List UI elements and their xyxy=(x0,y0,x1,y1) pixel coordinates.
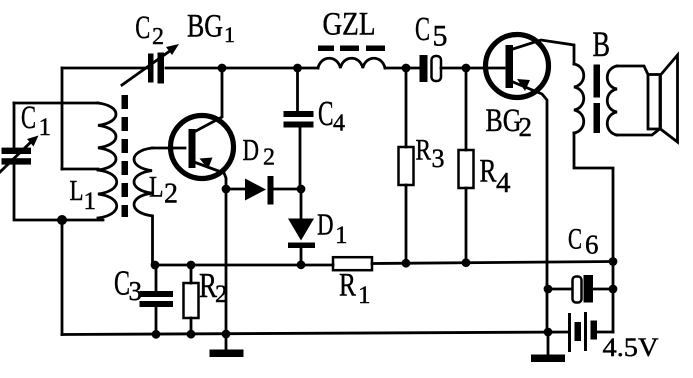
junction BG2 emitter / ground bus xyxy=(544,328,553,337)
wire top rail C5 to BG2 base xyxy=(441,67,504,70)
transformer B secondary xyxy=(607,66,617,135)
svg-text:BG: BG xyxy=(187,9,223,45)
wire secondary to speaker bottom xyxy=(617,130,659,136)
B primary bottom return xyxy=(574,133,613,332)
svg-text:C: C xyxy=(318,94,334,133)
svg-text:3: 3 xyxy=(432,144,445,173)
svg-text:1: 1 xyxy=(335,222,348,249)
svg-text:L: L xyxy=(149,171,164,204)
svg-text:6: 6 xyxy=(585,230,599,260)
ground right xyxy=(547,332,550,355)
svg-text:B: B xyxy=(593,24,611,64)
junction C6 right / battery line xyxy=(609,285,618,294)
svg-text:5: 5 xyxy=(433,20,448,53)
wire C1 top to L1 top xyxy=(14,102,98,105)
ground left xyxy=(225,334,228,350)
arrow C1 xyxy=(0,140,33,172)
svg-text:C: C xyxy=(568,223,582,256)
svg-text:BG: BG xyxy=(486,103,522,139)
svg-text:2: 2 xyxy=(263,145,275,171)
svg-text:D: D xyxy=(317,207,334,242)
inductor L1 xyxy=(98,103,117,218)
junction R4 top / top rail xyxy=(462,64,471,73)
junction tank bottom node xyxy=(57,215,67,225)
resistor R2 xyxy=(190,265,193,283)
svg-text:2: 2 xyxy=(215,281,228,308)
svg-text:R: R xyxy=(480,154,497,190)
svg-text:C: C xyxy=(135,10,150,46)
wire top rail after GZL xyxy=(385,67,420,70)
wire supply rail right segment xyxy=(372,262,613,264)
wire tank bottom down to ground bus xyxy=(61,220,64,335)
svg-text:GZL: GZL xyxy=(323,7,376,43)
capacitor C1 xyxy=(2,148,32,165)
transistor BG2 xyxy=(486,35,549,98)
svg-text:4: 4 xyxy=(496,167,511,199)
wire ground bus bottom xyxy=(62,332,569,335)
speaker xyxy=(648,75,660,130)
resistor R1 xyxy=(333,257,372,270)
wire secondary to speaker top xyxy=(617,66,648,75)
transformer B primary xyxy=(574,64,584,133)
svg-text:4.5V: 4.5V xyxy=(603,333,659,362)
svg-text:R: R xyxy=(416,134,432,167)
svg-text:2: 2 xyxy=(164,179,178,210)
wire top rail middle segment xyxy=(166,67,318,70)
battery 4.5V xyxy=(568,312,597,352)
svg-text:C: C xyxy=(415,11,430,48)
svg-text:2: 2 xyxy=(519,112,533,142)
wire C1 top lead xyxy=(13,103,16,148)
svg-text:1: 1 xyxy=(224,22,235,47)
junction R2 bottom / ground bus xyxy=(187,330,196,339)
svg-text:1: 1 xyxy=(84,188,97,215)
capacitor C6 xyxy=(548,288,573,291)
inductor GZL xyxy=(318,58,385,68)
capacitor C5 xyxy=(420,55,428,82)
BG2 collector line xyxy=(513,40,574,64)
wire top rail left segment xyxy=(62,67,148,70)
capacitor C2 xyxy=(148,53,164,84)
resistor R4 xyxy=(465,68,468,150)
junction BG1 emitter / D2 anode xyxy=(222,185,231,194)
arrow C2 xyxy=(122,48,174,85)
svg-text:4: 4 xyxy=(333,111,345,137)
inductor L2 xyxy=(134,148,152,216)
diode D2 xyxy=(226,188,245,191)
svg-text:3: 3 xyxy=(129,276,143,306)
svg-text:C: C xyxy=(21,100,36,136)
wire L1 tap xyxy=(62,168,98,171)
core dashes L1/L2 xyxy=(122,95,129,217)
junction R3 bottom / supply rail xyxy=(402,259,411,268)
capacitor C3 xyxy=(155,265,158,291)
BG1 emitter line xyxy=(194,162,226,334)
BG2 emitter arrow xyxy=(517,79,530,91)
wire L2 top to BG1 base xyxy=(152,147,185,150)
wire left rail down from top xyxy=(61,68,64,169)
BG1 collector line xyxy=(194,68,222,132)
svg-text:2: 2 xyxy=(152,24,164,50)
svg-text:1: 1 xyxy=(39,114,52,141)
junction B primary return / supply rail xyxy=(609,257,618,266)
junction L2 bottom / bias rail xyxy=(151,261,160,270)
GZL core dashes xyxy=(318,46,385,52)
junction D1 cathode / bias rail xyxy=(297,260,306,269)
junction BG1 collector / top rail xyxy=(218,64,227,73)
junction R4 bottom / supply rail xyxy=(462,258,471,267)
resistor R3 xyxy=(405,68,408,147)
junction BG1 emitter / ground bus xyxy=(222,330,231,339)
junction R2 top / bias rail xyxy=(187,261,196,270)
wire L2 bottom lead xyxy=(151,216,154,265)
B core xyxy=(594,65,601,134)
svg-text:1: 1 xyxy=(358,282,371,309)
BG2 emitter line xyxy=(513,82,547,332)
junction C6 left / BG2 emitter line xyxy=(544,285,553,294)
junction R3 top / top rail xyxy=(402,64,411,73)
svg-text:L: L xyxy=(70,175,84,207)
diode D1 xyxy=(300,189,303,218)
svg-text:D: D xyxy=(243,132,260,167)
svg-text:R: R xyxy=(339,268,356,304)
transistor BG1 xyxy=(171,116,234,179)
junction D2 cathode / C4 bottom / D1 anode xyxy=(297,185,306,194)
bus negative rail xyxy=(155,264,333,267)
junction C4 top / top rail xyxy=(293,64,302,73)
junction C3 bottom / ground bus xyxy=(152,330,161,339)
BG1 emitter arrow xyxy=(200,158,213,170)
wire C1 bottom lead xyxy=(14,165,103,220)
capacitor C4 xyxy=(296,68,299,111)
